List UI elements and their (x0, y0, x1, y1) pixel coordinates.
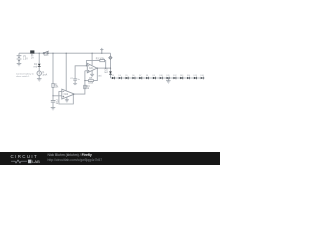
svg-text:D3: D3 (112, 75, 114, 77)
LED D16 (200, 75, 203, 79)
svg-text:OA1: OA1 (89, 67, 94, 70)
svg-text:OA2: OA2 (64, 93, 69, 96)
LED D3 (112, 75, 115, 79)
op-amp OA2 (62, 89, 75, 99)
power flag VCC (100, 48, 103, 51)
resistor R3 (100, 60, 105, 62)
footer bar (0, 152, 220, 165)
battery V1 (17, 56, 22, 61)
ground pin OA2 (65, 97, 69, 102)
LED chain (112, 75, 204, 79)
logo waveform + LAB (11, 159, 43, 164)
LED D15 (194, 75, 197, 79)
LED D13 (180, 75, 183, 79)
svg-text:D10: D10 (160, 75, 163, 77)
wire OA1 feedback (86, 61, 99, 66)
LED D14 (187, 75, 190, 79)
svg-text:D8: D8 (146, 75, 148, 77)
label R1 (55, 84, 60, 88)
svg-text:D11: D11 (166, 75, 169, 77)
fuse F1 (30, 50, 34, 53)
wire rail end drop to LED column (110, 53, 112, 78)
svg-text:SW1: SW1 (44, 55, 50, 57)
node blob on rail end (109, 56, 112, 59)
label C1 (56, 101, 60, 105)
wire C1 R1 column (52, 53, 54, 83)
wire D1 column (38, 53, 40, 63)
label C2 (70, 78, 81, 81)
LED D11 (166, 75, 169, 79)
switch SW1 (43, 51, 49, 54)
svg-text:D4: D4 (119, 75, 121, 77)
resistor R5 (88, 80, 93, 82)
wire OA1 minus input to C2 column (75, 66, 87, 79)
svg-text:1.5V: 1.5V (23, 58, 28, 60)
wire OA1 output (97, 67, 111, 69)
svg-text:D12: D12 (173, 75, 176, 77)
footer text line 2 (48, 158, 103, 162)
svg-text:1mA: 1mA (42, 74, 47, 77)
LED D4 (119, 75, 122, 79)
svg-text:1A: 1A (31, 56, 34, 59)
label F1 (31, 55, 34, 59)
diode D1 (38, 64, 41, 67)
ground under chain (166, 81, 171, 83)
footer text line 1 (48, 153, 92, 157)
wire chain ground stub (167, 78, 169, 81)
wire VCC stub (101, 50, 103, 53)
wire R5 branch (85, 80, 89, 82)
ground under C2 (73, 84, 77, 85)
svg-text:D7: D7 (139, 75, 141, 77)
svg-text:D13: D13 (180, 75, 183, 77)
wire OA2 output (75, 71, 85, 94)
LED D8 (146, 75, 149, 79)
junction dots (39, 53, 169, 97)
capacitor C2 (73, 79, 77, 80)
logo CIRCUIT (11, 154, 39, 159)
LED D9 (153, 75, 156, 79)
label V1 (23, 56, 28, 60)
label R4 (87, 86, 91, 90)
current source I1 (37, 71, 41, 75)
wire OA2 feedback loop (59, 92, 73, 104)
ground under battery (17, 64, 22, 66)
svg-text:D16: D16 (200, 75, 203, 77)
wire top rail (19, 52, 111, 54)
label I1 (42, 72, 47, 76)
label D1 (34, 64, 38, 68)
LED D6 (132, 75, 135, 79)
svg-text:out: out (98, 75, 102, 78)
resistor R4 (84, 85, 86, 88)
capacitor C1 (51, 101, 55, 103)
svg-text:LAB: LAB (32, 159, 40, 164)
svg-text:D15: D15 (194, 75, 197, 77)
LED D5 (125, 75, 128, 79)
ground pin OA1 (90, 71, 94, 77)
wire LED chain rail (111, 77, 205, 79)
wire OA1 supply (91, 53, 93, 65)
label D2 (104, 70, 108, 74)
wire OA2 supply column (65, 53, 67, 91)
resistor R1 (52, 83, 54, 87)
LED D7 (139, 75, 142, 79)
wire OA2 plus input branch (53, 95, 62, 97)
svg-text:D9: D9 (153, 75, 155, 77)
svg-text:D5: D5 (125, 75, 127, 77)
wire battery column (18, 53, 20, 55)
ground under I1 (37, 79, 42, 81)
ground under C1 (51, 108, 56, 110)
LED D12 (173, 75, 176, 79)
svg-text:D6: D6 (132, 75, 134, 77)
svg-text:R3 100k: R3 100k (96, 58, 105, 60)
label R5 (88, 78, 94, 85)
LED D2 (109, 71, 112, 74)
svg-text:100k: 100k (88, 83, 94, 85)
LED D10 (160, 75, 163, 79)
annotation text (16, 72, 35, 77)
op-amp OA1 (87, 63, 97, 72)
svg-text:close switch 1: close switch 1 (16, 75, 30, 78)
wire OA1 plus input (85, 70, 87, 72)
svg-text:D14: D14 (187, 75, 190, 77)
